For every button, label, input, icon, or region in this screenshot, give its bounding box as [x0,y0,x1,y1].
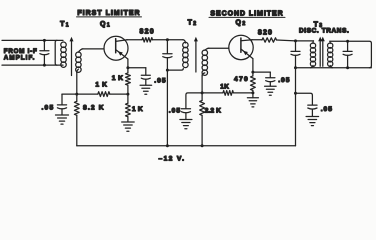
title SECOND LIMITER [209,11,285,18]
transformer T3 primary winding [310,41,315,68]
wire 1K lower leads [127,94,129,122]
resistor 2.2K [200,100,205,115]
resistor 8.2K [74,101,79,115]
wire tuning cap bottom to -12V rail [166,69,169,148]
ground input-side bypass cap [56,114,69,116]
label FROM I-F AMPLIF. [4,48,38,61]
svg-text:.05: .05 [42,104,55,111]
svg-text:DISC. TRANS.: DISC. TRANS. [299,28,349,35]
wire T3 secondary top to output loop [330,41,372,67]
resistor 820 (second stage collector load) [262,38,277,42]
wire T3 bottom bus [296,67,372,69]
ground Q2 emitter bypass [265,85,277,87]
wire to T2 primary bottom [167,69,183,71]
wire -12V rail [77,145,296,147]
capacitor T2 primary tuning cap [163,40,172,70]
wire Q1 emitter down [126,59,129,69]
svg-text:AMPLIF.: AMPLIF. [4,55,36,62]
wire input top lead [2,39,63,41]
T3 tuning slug arrows (double core) [318,37,325,67]
svg-text:.05: .05 [169,108,181,115]
node T3 top-left junction [294,39,297,42]
wire 1K to emitter chain [110,93,130,96]
transistor Q2 [229,35,253,59]
title FIRST LIMITER [77,10,142,17]
svg-text:1K: 1K [220,84,229,91]
transistor Q1 [104,36,128,60]
transformer T1 secondary winding [76,49,83,73]
wire T1 secondary bottom to bias node [75,72,78,96]
svg-text:.05: .05 [321,106,333,113]
wire emitter to bypass cap stage2 [253,71,270,73]
wire T2 secondary to Q2 base [208,47,229,49]
transformer T2 secondary winding [202,48,209,76]
resistor 1K horizontal (stage 2) [223,91,234,96]
svg-text:–12 V.: –12 V. [159,155,186,162]
T2 tuning slug arrow [194,37,198,72]
ground Q1 emitter bypass [140,84,152,86]
transformer T1 primary winding [55,40,66,67]
wire bias bus to 1K [202,92,223,94]
wire to far right bypass cap [296,93,313,104]
svg-text:470: 470 [234,76,249,83]
svg-text:T1: T1 [60,21,70,29]
wire 470 leads [252,72,254,93]
wire input bottom lead [2,64,63,66]
resistor 1K vertical lower [126,103,131,117]
capacitor .05 stage-2 bias bypass [181,109,190,120]
capacitor T3 secondary tuning cap [343,40,352,69]
svg-text:.05: .05 [154,77,166,84]
svg-text:2.2 K: 2.2 K [205,108,222,115]
wire R820 to T3 [277,39,314,42]
wire emitter to bypass cap [128,67,146,69]
T1 tuning slug arrow [70,37,74,76]
wire Q1 collector to R820 [127,39,142,41]
svg-text:SECOND LIMITER: SECOND LIMITER [210,11,283,18]
resistor 470 [251,76,256,91]
capacitor .05 far-right bypass [308,105,317,116]
wire Q2 collector to R820 [252,39,262,41]
svg-text:820: 820 [140,28,155,35]
wire T2 secondary bottom down [201,75,204,94]
resistor 820 (first stage collector load) [142,38,153,42]
svg-text:1 K: 1 K [132,106,143,113]
wire R820 to T2 primary [153,38,184,41]
capacitor .05 Q2 emitter bypass [266,72,275,86]
svg-text:1 K: 1 K [112,75,124,82]
transformer T2 primary winding [183,40,189,68]
transformer T3 secondary winding [328,41,333,67]
wire Q2 emitter down [251,59,254,74]
svg-text:Q2: Q2 [235,20,246,28]
wire bias bus stage 2 left [186,93,202,108]
ground below 1K chain [122,121,135,123]
svg-text:8.2 K: 8.2 K [83,104,105,111]
svg-text:820: 820 [258,29,273,36]
wire bias bus stage 1 [62,93,98,95]
svg-text:.05: .05 [278,77,290,84]
svg-text:FIRST LIMITER: FIRST LIMITER [77,10,140,17]
capacitor T3 primary tuning cap [291,41,300,69]
svg-text:1 K: 1 K [95,81,107,88]
capacitor input tuning cap [40,39,49,67]
svg-text:Q1: Q1 [100,21,111,29]
wire T1 secondary to Q1 base [82,48,104,50]
resistor 1K vertical upper (Q1 emitter) [126,73,131,85]
wire 8.2K top lead [76,94,78,101]
wire 8.2K to rail corner [76,115,78,146]
ground far-right cap [306,117,319,126]
ground below 470 [247,93,258,107]
wire 2.2K leads [201,93,204,147]
wire 1K upper leads [127,68,129,94]
resistor 1K horizontal (stage 1) [98,92,110,97]
capacitor .05 Q1 emitter bypass [141,68,150,85]
capacitor .05 input-side bypass [57,94,66,115]
svg-text:T2: T2 [188,20,198,28]
wire 1K to ground node [233,91,254,94]
ground stage-2 bias cap [180,119,192,121]
wire T3 feed down to -12V rail [294,68,297,146]
